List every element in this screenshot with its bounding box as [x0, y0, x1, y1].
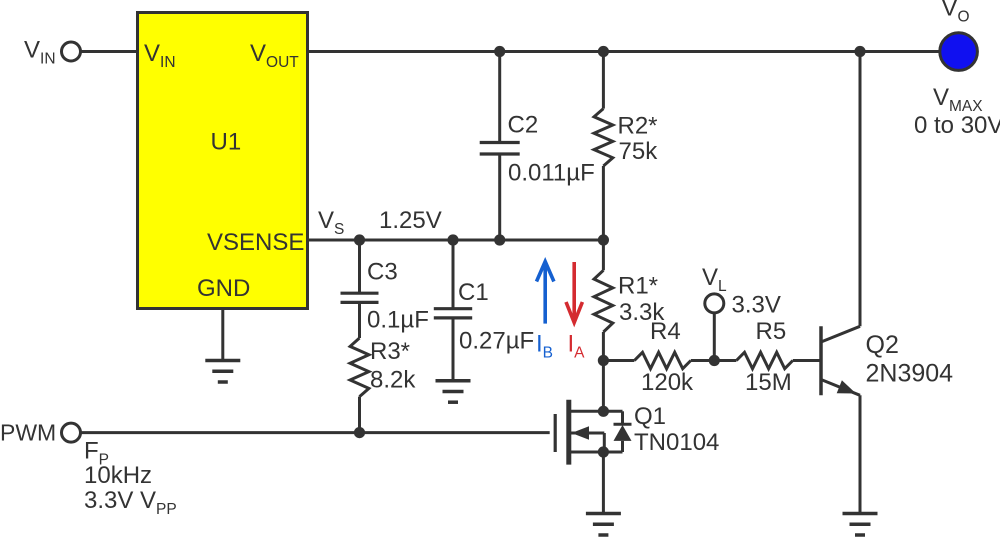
svg-text:0.27µF: 0.27µF [459, 328, 534, 355]
wire Q2 collector [859, 52, 862, 327]
svg-text:75k: 75k [619, 138, 659, 165]
svg-text:VS: VS [318, 207, 344, 238]
wire Q2 emitter [859, 395, 862, 513]
svg-text:C1: C1 [458, 279, 489, 306]
svg-text:IB: IB [536, 331, 553, 362]
node VIN input terminal [62, 42, 81, 61]
svg-text:C3: C3 [367, 259, 398, 286]
wire VSENSE rail [309, 239, 603, 242]
svg-text:TN0104: TN0104 [634, 429, 719, 456]
resistor R4 [634, 352, 690, 368]
svg-text:R3*: R3* [370, 338, 410, 365]
resistor R5 [736, 352, 792, 368]
svg-text:15M: 15M [745, 369, 792, 396]
wire R1 to R4 [603, 359, 634, 362]
junction dot R2 top [598, 46, 609, 57]
resistor R3 [350, 338, 369, 433]
wire Q1 drain [602, 361, 605, 412]
svg-text:VIN: VIN [24, 37, 56, 68]
wire PWM to Q1 gate [81, 431, 550, 434]
svg-text:VMAX: VMAX [933, 84, 983, 115]
junction dot R1 bottom [598, 355, 609, 366]
current arrow IB [537, 262, 554, 324]
node VL terminal [705, 294, 724, 361]
ground U1 [205, 361, 240, 383]
svg-text:VSENSE: VSENSE [207, 229, 304, 256]
regulator U1 body [138, 13, 308, 309]
node VO output terminal [940, 33, 978, 71]
capacitor C3 [341, 240, 379, 338]
junction dot C2 bottom [494, 234, 505, 245]
svg-text:3.3V: 3.3V [732, 292, 781, 319]
wire R5 to Q2 base [793, 359, 820, 362]
svg-text:VO: VO [942, 0, 970, 26]
capacitor C2 [480, 52, 520, 241]
wire U1 GND pin [221, 310, 224, 361]
svg-text:IA: IA [568, 331, 586, 362]
current arrow IA [566, 262, 582, 323]
junction dot R3 bottom [354, 427, 365, 438]
junction dot Q1 drain [598, 406, 609, 417]
svg-text:1.25V: 1.25V [379, 207, 442, 234]
svg-text:R2*: R2* [618, 113, 658, 140]
junction dot Q1 source [598, 446, 609, 457]
wire R4 to R5 [691, 359, 737, 362]
transistor Q2 [821, 326, 860, 395]
svg-text:2N3904: 2N3904 [866, 360, 954, 388]
wire VOUT top rail [309, 50, 939, 53]
svg-text:R1*: R1* [618, 273, 658, 300]
transistor Q1 MOSFET [555, 400, 631, 465]
wire VIN input [81, 50, 137, 53]
junction dot R1 top [598, 234, 609, 245]
svg-text:R4: R4 [650, 318, 681, 345]
junction dot C1 top [447, 234, 458, 245]
resistor R2 [594, 52, 613, 241]
ground C1 [436, 381, 471, 403]
svg-text:U1: U1 [211, 129, 242, 156]
svg-text:120k: 120k [641, 369, 694, 396]
svg-text:10kHz: 10kHz [84, 462, 152, 489]
ground Q1 [586, 514, 621, 536]
svg-text:0.1µF: 0.1µF [367, 307, 429, 334]
svg-text:GND: GND [197, 275, 250, 302]
junction dot VL [709, 355, 720, 366]
svg-text:0 to 30V: 0 to 30V [914, 112, 1000, 139]
ground Q2 [843, 514, 878, 536]
junction dot Q2 collector [854, 46, 865, 57]
svg-text:PWM: PWM [0, 420, 56, 446]
svg-text:Q1: Q1 [634, 403, 666, 430]
svg-text:VL: VL [702, 264, 727, 295]
svg-text:3.3V VPP: 3.3V VPP [84, 487, 177, 518]
capacitor C1 [434, 240, 472, 381]
junction dot C2 top [494, 46, 505, 57]
node PWM input terminal [62, 423, 81, 442]
svg-text:8.2k: 8.2k [370, 367, 416, 394]
svg-text:C2: C2 [508, 112, 539, 139]
resistor R1 [594, 240, 613, 361]
junction dot C3 top [354, 234, 365, 245]
svg-text:R5: R5 [756, 318, 787, 345]
wire Q1 source [602, 452, 605, 514]
svg-text:Q2: Q2 [866, 331, 899, 359]
svg-text:0.011µF: 0.011µF [508, 160, 595, 187]
